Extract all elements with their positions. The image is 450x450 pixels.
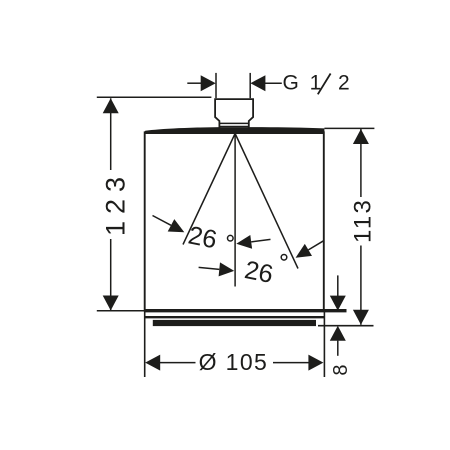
svg-text:113: 113: [350, 198, 377, 243]
svg-text:26: 26: [242, 256, 275, 289]
svg-text:8: 8: [330, 364, 352, 375]
svg-text:Ø 105: Ø 105: [199, 349, 269, 375]
svg-text:123: 123: [101, 170, 131, 236]
svg-text:26: 26: [186, 221, 219, 254]
svg-text:2: 2: [338, 71, 350, 94]
svg-text:G 1: G 1: [283, 71, 324, 94]
